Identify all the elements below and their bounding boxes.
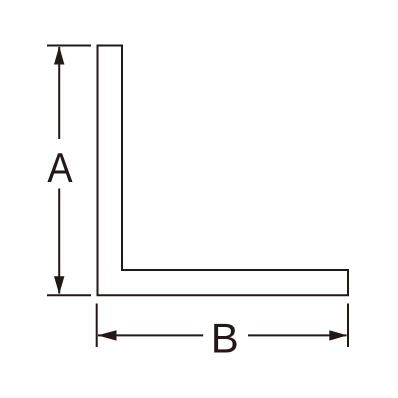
svg-text:B: B xyxy=(211,314,239,361)
dimension line B right segment xyxy=(248,334,347,336)
arrowhead B right xyxy=(329,330,347,340)
extension line right of B xyxy=(347,304,349,348)
arrowhead B left xyxy=(97,330,116,340)
extension line top of A xyxy=(47,45,91,47)
dimension line B left segment xyxy=(98,334,203,336)
arrowhead A up xyxy=(54,46,64,64)
arrowhead A down xyxy=(54,276,64,294)
L-angle profile outline xyxy=(98,46,349,296)
svg-text:A: A xyxy=(47,144,72,191)
dimension line A lower segment xyxy=(58,189,60,294)
extension line left of B xyxy=(96,304,98,348)
extension line bottom of A xyxy=(47,294,91,296)
dimension line A upper segment xyxy=(58,47,60,139)
